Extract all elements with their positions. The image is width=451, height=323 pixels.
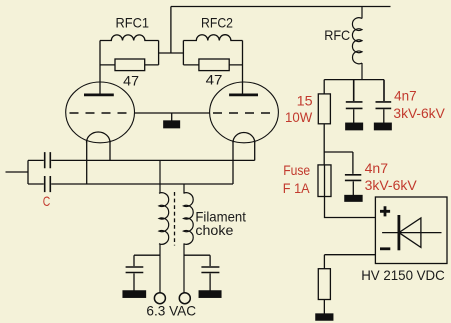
capacitor left bypass (126, 267, 144, 273)
svg-text:4n7: 4n7 (394, 87, 417, 103)
capacitor C top plates (45, 152, 51, 168)
resistor R1 47 (100, 64, 159, 66)
svg-text:15: 15 (297, 93, 313, 109)
rectifier box HV supply (375, 197, 447, 264)
svg-text:F 1A: F 1A (283, 180, 310, 196)
svg-text:47: 47 (206, 72, 223, 88)
tube V2 grid (dashed) (213, 112, 270, 114)
wire riser to anode junction (170, 7, 172, 54)
svg-text:RFC2: RFC2 (201, 14, 233, 30)
wire RFC1 left vertical (anode lead V1) (99, 41, 101, 94)
ground C1 (353, 109, 355, 123)
svg-text:6.3 VAC: 6.3 VAC (146, 303, 196, 319)
inductor RFC2 (183, 35, 242, 41)
filament choke core (dashed) (174, 192, 176, 246)
ground C2 (383, 109, 385, 123)
inductor filament choke left winding (159, 160, 169, 293)
capacitor C2 4n7 (376, 80, 392, 109)
svg-text:47: 47 (123, 73, 139, 89)
svg-text:RFC1: RFC1 (116, 14, 150, 30)
wire fuse through and to + terminal (325, 165, 376, 218)
svg-text:HV 2150 VDC: HV 2150 VDC (361, 267, 445, 283)
wire HV rail (324, 79, 384, 81)
tube V1 cathode filament arc (87, 132, 111, 143)
wire input left vertical (27, 160, 29, 184)
resistor R3 15 10W (323, 80, 325, 165)
diode D1 (382, 232, 441, 234)
ground grid center (171, 113, 173, 121)
wire left bypass branch (134, 255, 160, 266)
tube V2 cathode filament arc (233, 133, 255, 143)
wire V1 filament left leg to bottom bus (86, 142, 88, 185)
wire input stub (6, 171, 29, 173)
plus terminal (380, 206, 390, 216)
ground right bypass (209, 273, 211, 291)
wire node to C3 (324, 152, 353, 174)
wire RFC1 right vertical (158, 41, 160, 65)
ground left bypass (133, 273, 135, 291)
terminal 6.3VAC left (154, 293, 165, 304)
tube V2 anode plate (229, 94, 258, 97)
svg-text:10W: 10W (285, 109, 313, 125)
resistor R4 bleeder (318, 269, 330, 300)
wire V1 filament right leg to top bus (109, 142, 111, 161)
svg-text:choke: choke (195, 222, 233, 238)
tube V1 grid (dashed) (70, 112, 131, 114)
svg-text:3kV-6kV: 3kV-6kV (393, 105, 445, 121)
svg-text:3kV-6kV: 3kV-6kV (365, 177, 418, 193)
inductor RFC (plate choke) (352, 7, 362, 80)
fuse F1 (318, 165, 331, 197)
wire top filament bus (28, 159, 255, 161)
svg-text:4n7: 4n7 (365, 160, 389, 176)
wire V2 filament left leg to bottom bus (232, 142, 234, 185)
resistor R2 47 (183, 64, 242, 66)
capacitor C1 4n7 (346, 80, 363, 109)
wire V2 filament right leg to top bus (254, 142, 256, 161)
tube V2 envelope (210, 82, 279, 143)
inductor filament choke right winding (184, 184, 194, 293)
ground bleeder (323, 300, 325, 315)
wire grid bus between tubes (135, 112, 210, 114)
wire RFC2 right vertical (anode lead V2) (242, 41, 244, 94)
terminal 6.3VAC right (179, 293, 190, 304)
svg-text:RFC: RFC (324, 27, 350, 43)
svg-text:Fuse: Fuse (283, 162, 310, 178)
svg-text:C: C (43, 193, 51, 209)
wire junction bar between RFC1 and RFC2 (159, 52, 184, 54)
ground C3 (352, 181, 354, 195)
minus terminal (380, 247, 390, 250)
tube V1 anode plate (84, 94, 114, 97)
capacitor C bottom plates (45, 176, 51, 192)
tube V1 envelope (66, 82, 135, 143)
capacitor right bypass (201, 267, 219, 273)
wire right bypass branch (184, 255, 210, 266)
wire minus to bleeder (324, 255, 375, 269)
wire bottom filament bus (28, 183, 233, 185)
wire top horizontal (171, 6, 391, 8)
capacitor C3 4n7 (345, 175, 361, 181)
wire RFC2 left vertical (182, 41, 184, 65)
inductor RFC1 (100, 35, 159, 41)
